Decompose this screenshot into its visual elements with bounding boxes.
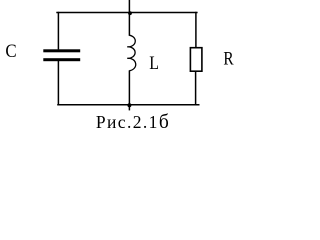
wire top rail <box>56 12 197 14</box>
node bottom junction dot <box>127 103 131 107</box>
wire left branch lower segment <box>57 61 59 105</box>
svg-text:C: C <box>5 40 16 61</box>
svg-text:R: R <box>223 47 234 69</box>
capacitor C top plate <box>43 49 80 52</box>
wire right branch upper stub <box>195 12 197 48</box>
wire middle branch lower segment <box>128 70 130 110</box>
capacitor C bottom plate <box>43 58 80 61</box>
svg-text:Рис.2.1б: Рис.2.1б <box>96 112 170 133</box>
resistor R box <box>190 48 202 71</box>
wire left branch upper segment <box>57 12 59 50</box>
wire right branch lower stub <box>195 72 197 106</box>
wire middle branch upper segment <box>128 0 130 36</box>
svg-text:L: L <box>149 52 159 74</box>
inductor L coil <box>127 35 135 70</box>
wire bottom rail <box>57 104 199 106</box>
node top junction dot <box>128 11 132 15</box>
